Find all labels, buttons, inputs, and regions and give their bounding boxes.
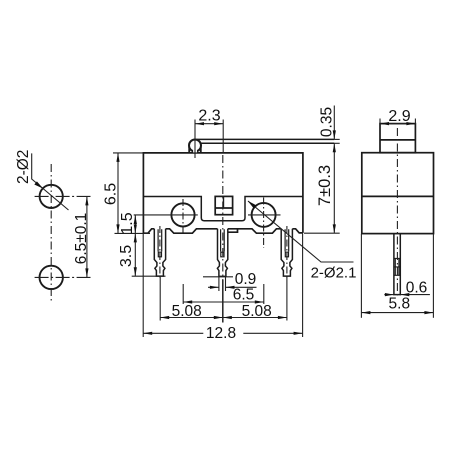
svg-text:0.9: 0.9: [235, 271, 257, 288]
svg-text:2-Ø2.1: 2-Ø2.1: [311, 264, 357, 281]
svg-text:0.35: 0.35: [318, 107, 335, 137]
svg-text:12.8: 12.8: [206, 325, 236, 342]
svg-text:2.3: 2.3: [198, 108, 220, 125]
svg-text:5.08: 5.08: [242, 303, 272, 320]
svg-text:5.08: 5.08: [172, 303, 202, 320]
svg-text:7±0.3: 7±0.3: [316, 165, 334, 206]
svg-text:3.5: 3.5: [118, 245, 135, 267]
svg-text:6.5±0.1: 6.5±0.1: [73, 213, 90, 265]
svg-text:0.6: 0.6: [406, 280, 428, 297]
svg-text:6.5: 6.5: [102, 183, 119, 205]
svg-text:6.5: 6.5: [233, 287, 255, 304]
svg-text:2.9: 2.9: [388, 108, 410, 125]
svg-text:2-Ø2: 2-Ø2: [15, 150, 32, 184]
svg-text:5.8: 5.8: [389, 296, 411, 313]
svg-text:1.5: 1.5: [119, 212, 136, 234]
